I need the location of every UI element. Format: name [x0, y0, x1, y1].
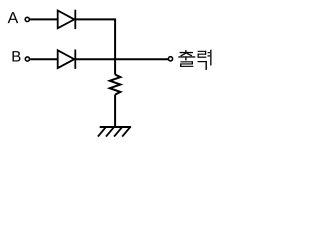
ground	[98, 127, 131, 137]
resistor R1	[110, 75, 121, 95]
glyph 력	[198, 50, 212, 70]
wire D1 cathode right then down to node	[75, 19, 115, 74]
wire A terminal to diode D1 anode	[30, 18, 58, 20]
diode D1 (input A)	[58, 10, 76, 29]
output label 출력 (hand-drawn glyphs)	[178, 50, 211, 70]
input terminal A	[25, 17, 29, 21]
node B label	[13, 51, 21, 61]
wire B terminal to diode D2 anode	[30, 58, 58, 60]
node A label	[8, 12, 19, 23]
output terminal	[168, 57, 172, 61]
input terminal B	[25, 57, 29, 61]
wire D2 cathode through junction to output terminal	[75, 58, 168, 60]
diode D2 (input B)	[58, 50, 76, 69]
glyph 출	[178, 50, 195, 67]
wire resistor to ground	[114, 95, 116, 127]
